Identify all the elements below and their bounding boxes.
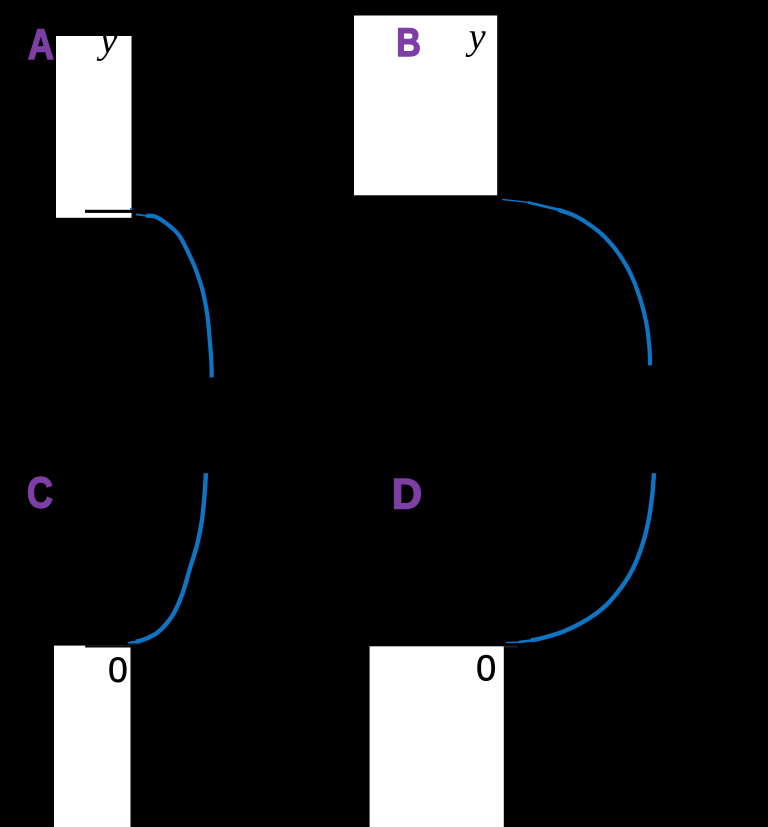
svg-text:0: 0 (476, 647, 496, 688)
svg-text:D: D (392, 472, 422, 519)
svg-text:y: y (465, 16, 486, 58)
white panel C (bottom-left graph fragment) (54, 646, 131, 827)
blue exponential curve D medium end (519, 640, 532, 642)
blue exponential curve C (136, 473, 206, 641)
blue exponential curve C thin end (128, 642, 131, 644)
svg-text:A: A (28, 21, 54, 69)
blue exponential curve D thin end (506, 641, 521, 643)
blue exponential curve B (558, 210, 650, 366)
blue exponential curve B thin start (502, 199, 530, 202)
dark x-axis stub on panel C top edge (85, 646, 130, 648)
white panel D (bottom-right graph fragment) (370, 646, 504, 827)
blue exponential curve A thin start (136, 214, 147, 216)
white panel B (top-right graph fragment) (354, 16, 497, 196)
blue exponential curve C medium end (130, 641, 138, 644)
dark navy shadow under curve C end (129, 643, 142, 645)
svg-text:C: C (27, 470, 53, 518)
blue exponential curve D (531, 473, 654, 640)
blue exponential curve A (146, 216, 212, 378)
svg-text:B: B (396, 21, 421, 65)
dark navy x-axis stub right of panel D (504, 646, 517, 648)
blue exponential curve B medium start (528, 202, 560, 210)
white panel A (top-left graph fragment) (56, 36, 132, 218)
svg-text:0: 0 (108, 651, 128, 690)
svg-text:y: y (96, 18, 118, 61)
blue tick at panel A edge (130, 208, 132, 210)
black asymptote line inside panel A (85, 210, 132, 213)
